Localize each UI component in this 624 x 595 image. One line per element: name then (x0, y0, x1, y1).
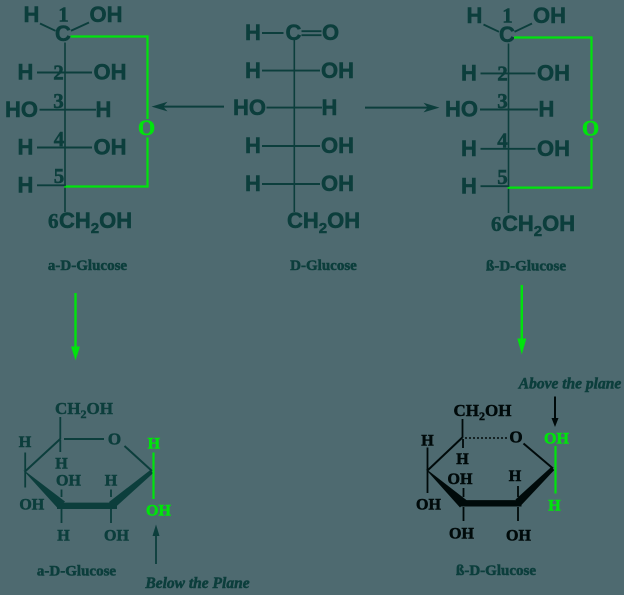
svg-text:OH: OH (537, 61, 570, 86)
svg-text:OH: OH (533, 3, 566, 28)
bond C3-up OH (61, 490, 63, 498)
svg-text:OH: OH (56, 473, 81, 490)
bond C1-OH (71, 23, 89, 31)
bond H-C2-OH (262, 70, 320, 72)
svg-text:H: H (18, 135, 34, 160)
svg-text:H: H (57, 528, 70, 545)
svg-text:H: H (456, 451, 469, 468)
green bracket right vertical upper wire (590, 36, 592, 119)
bond H-C1 (484, 25, 500, 32)
svg-text:Below the Plane: Below the Plane (144, 575, 249, 592)
svg-text:HO: HO (233, 95, 266, 120)
bond H-C5 (481, 185, 510, 187)
double bond C1=O lower (302, 34, 322, 36)
svg-text:H: H (461, 136, 477, 161)
green bracket bottom wire (64, 185, 149, 187)
svg-text:3: 3 (497, 89, 508, 113)
svg-text:C: C (55, 21, 71, 46)
svg-text:2: 2 (497, 61, 508, 85)
svg-text:H: H (18, 173, 34, 198)
svg-text:5: 5 (497, 165, 508, 189)
annotation arrowhead down (552, 418, 559, 427)
svg-text:H: H (467, 3, 483, 28)
bond CH2OH-C5 (59, 417, 61, 440)
bond C5-down H (59, 440, 61, 452)
svg-text:H: H (19, 434, 32, 451)
arrow to beta (right) wire (365, 107, 428, 109)
svg-text:HO: HO (5, 97, 38, 122)
D-glucose backbone wire (293, 40, 295, 212)
ring edge O-C1 (524, 444, 554, 469)
svg-text:O: O (138, 115, 155, 140)
svg-text:H: H (461, 173, 477, 198)
svg-text:a-D-Glucose: a-D-Glucose (48, 258, 127, 274)
svg-text:H: H (509, 468, 522, 485)
bond C2-up H (110, 490, 112, 498)
green arrow down (left) wire (74, 293, 76, 347)
svg-text:OH: OH (537, 136, 570, 161)
annotation arrow up wire (155, 534, 157, 564)
svg-text:OH: OH (448, 471, 473, 488)
svg-text:OH: OH (544, 431, 569, 448)
double bond C1=O upper (302, 30, 322, 32)
svg-text:H: H (245, 171, 261, 196)
bond HO-C3-H (40, 109, 97, 111)
green bond C1 vertical (554, 446, 556, 494)
svg-text:5: 5 (54, 164, 65, 188)
green arrow down (right) wire (521, 285, 523, 339)
svg-text:OH: OH (416, 497, 441, 514)
svg-text:OH: OH (104, 528, 129, 545)
svg-text:OH: OH (321, 171, 354, 196)
svg-text:4: 4 (54, 127, 65, 151)
svg-text:O: O (582, 116, 599, 141)
svg-text:6: 6 (491, 212, 502, 236)
ring front bottom edge C3-C2 (459, 500, 522, 506)
svg-text:OH: OH (449, 526, 474, 543)
bond C3-up OH (463, 488, 465, 497)
svg-text:4: 4 (497, 128, 508, 152)
bond H-C4-OH (37, 147, 92, 149)
svg-text:Above the plane: Above the plane (518, 376, 622, 393)
ring edge C4-C5 (25, 439, 60, 472)
svg-text:C: C (286, 20, 302, 45)
svg-text:O: O (322, 20, 339, 45)
svg-text:H: H (55, 455, 68, 472)
svg-text:2: 2 (53, 61, 64, 85)
svg-text:H: H (245, 133, 261, 158)
bond CH2OH-C5 (462, 419, 464, 438)
bond C4-up H (24, 453, 26, 488)
ring front wedge C4-C3 (426, 469, 467, 507)
bond C5-down H (462, 439, 464, 448)
bond C3-down OH (463, 507, 465, 521)
svg-text:H: H (105, 473, 118, 490)
svg-text:ß-D-Glucose: ß-D-Glucose (486, 259, 566, 275)
ring edge C5-O (64, 438, 104, 440)
green bracket right vertical lower wire (146, 138, 148, 188)
bond H-C1 (262, 32, 284, 34)
bond H-C5 (37, 184, 66, 186)
svg-text:H: H (461, 61, 477, 86)
ring edge C4-C5 (428, 438, 463, 471)
svg-text:H: H (96, 97, 112, 122)
green arrowhead (right) (517, 339, 526, 355)
bond C1-OH (515, 24, 533, 32)
green bracket bottom wire (508, 187, 593, 189)
svg-text:O: O (108, 430, 121, 449)
green bracket right vertical lower wire (590, 138, 592, 189)
bond C3-down H (61, 509, 63, 523)
svg-text:OH: OH (506, 528, 531, 545)
bond H-C1 (40, 24, 56, 31)
bond C2-up H (517, 486, 519, 497)
svg-text:H: H (18, 60, 34, 85)
svg-text:H: H (322, 95, 338, 120)
ring edge C5-O dotted (465, 437, 507, 439)
arrow to alpha (left) wire (163, 106, 224, 108)
arrowhead left (152, 102, 168, 112)
svg-text:H: H (245, 20, 261, 45)
svg-text:OH: OH (90, 2, 123, 27)
svg-text:ß-D-Glucose: ß-D-Glucose (456, 563, 536, 579)
svg-text:H: H (539, 97, 555, 122)
bond H-C5-OH (262, 183, 320, 185)
svg-text:H: H (548, 498, 561, 515)
svg-text:O: O (509, 428, 522, 447)
green arrowhead (left) (71, 347, 80, 361)
bond C2-down OH (517, 507, 519, 521)
ring front wedge C2-C1 (516, 467, 555, 506)
svg-text:OH: OH (94, 135, 127, 160)
annotation arrowhead up (153, 525, 160, 537)
svg-text:a-D-Glucose: a-D-Glucose (37, 564, 116, 580)
bond H-C4-OH (481, 148, 536, 150)
ring front bottom edge C3-C2 (57, 503, 117, 509)
svg-text:3: 3 (53, 89, 64, 113)
bond C2-down OH (110, 509, 112, 523)
beta Fischer backbone wire (508, 44, 510, 214)
svg-text:H: H (148, 436, 161, 453)
svg-text:H: H (245, 58, 261, 83)
svg-text:OH: OH (321, 133, 354, 158)
bond HO-C3-H (480, 109, 538, 111)
svg-text:H: H (421, 433, 434, 450)
svg-text:OH: OH (19, 497, 44, 514)
svg-text:6: 6 (48, 209, 59, 233)
green bracket right vertical upper wire (146, 35, 148, 119)
annotation arrow down wire (554, 397, 556, 419)
green ring-oxygen bracket top wire (514, 36, 592, 38)
arrowhead right (424, 103, 440, 113)
svg-text:D-Glucose: D-Glucose (290, 258, 357, 274)
alpha Fischer backbone wire (64, 43, 66, 213)
svg-text:OH: OH (146, 503, 171, 520)
bond H-C2-OH (481, 72, 536, 74)
green bond C1 vertical (152, 453, 154, 500)
green ring-oxygen bracket top wire (71, 35, 149, 37)
bond C4-up H (427, 448, 429, 494)
ring front wedge C2-C1 (109, 470, 153, 508)
bond H-C2-OH (37, 72, 92, 74)
ring edge O-C1 (125, 446, 153, 471)
svg-text:C: C (499, 22, 515, 47)
bond H-C4-OH (262, 145, 320, 147)
ring front wedge C4-C3 (23, 470, 65, 508)
bond HO-C3-H (267, 107, 323, 109)
svg-text:HO: HO (445, 97, 478, 122)
svg-text:OH: OH (94, 60, 127, 85)
svg-text:OH: OH (321, 58, 354, 83)
svg-text:H: H (24, 2, 40, 27)
